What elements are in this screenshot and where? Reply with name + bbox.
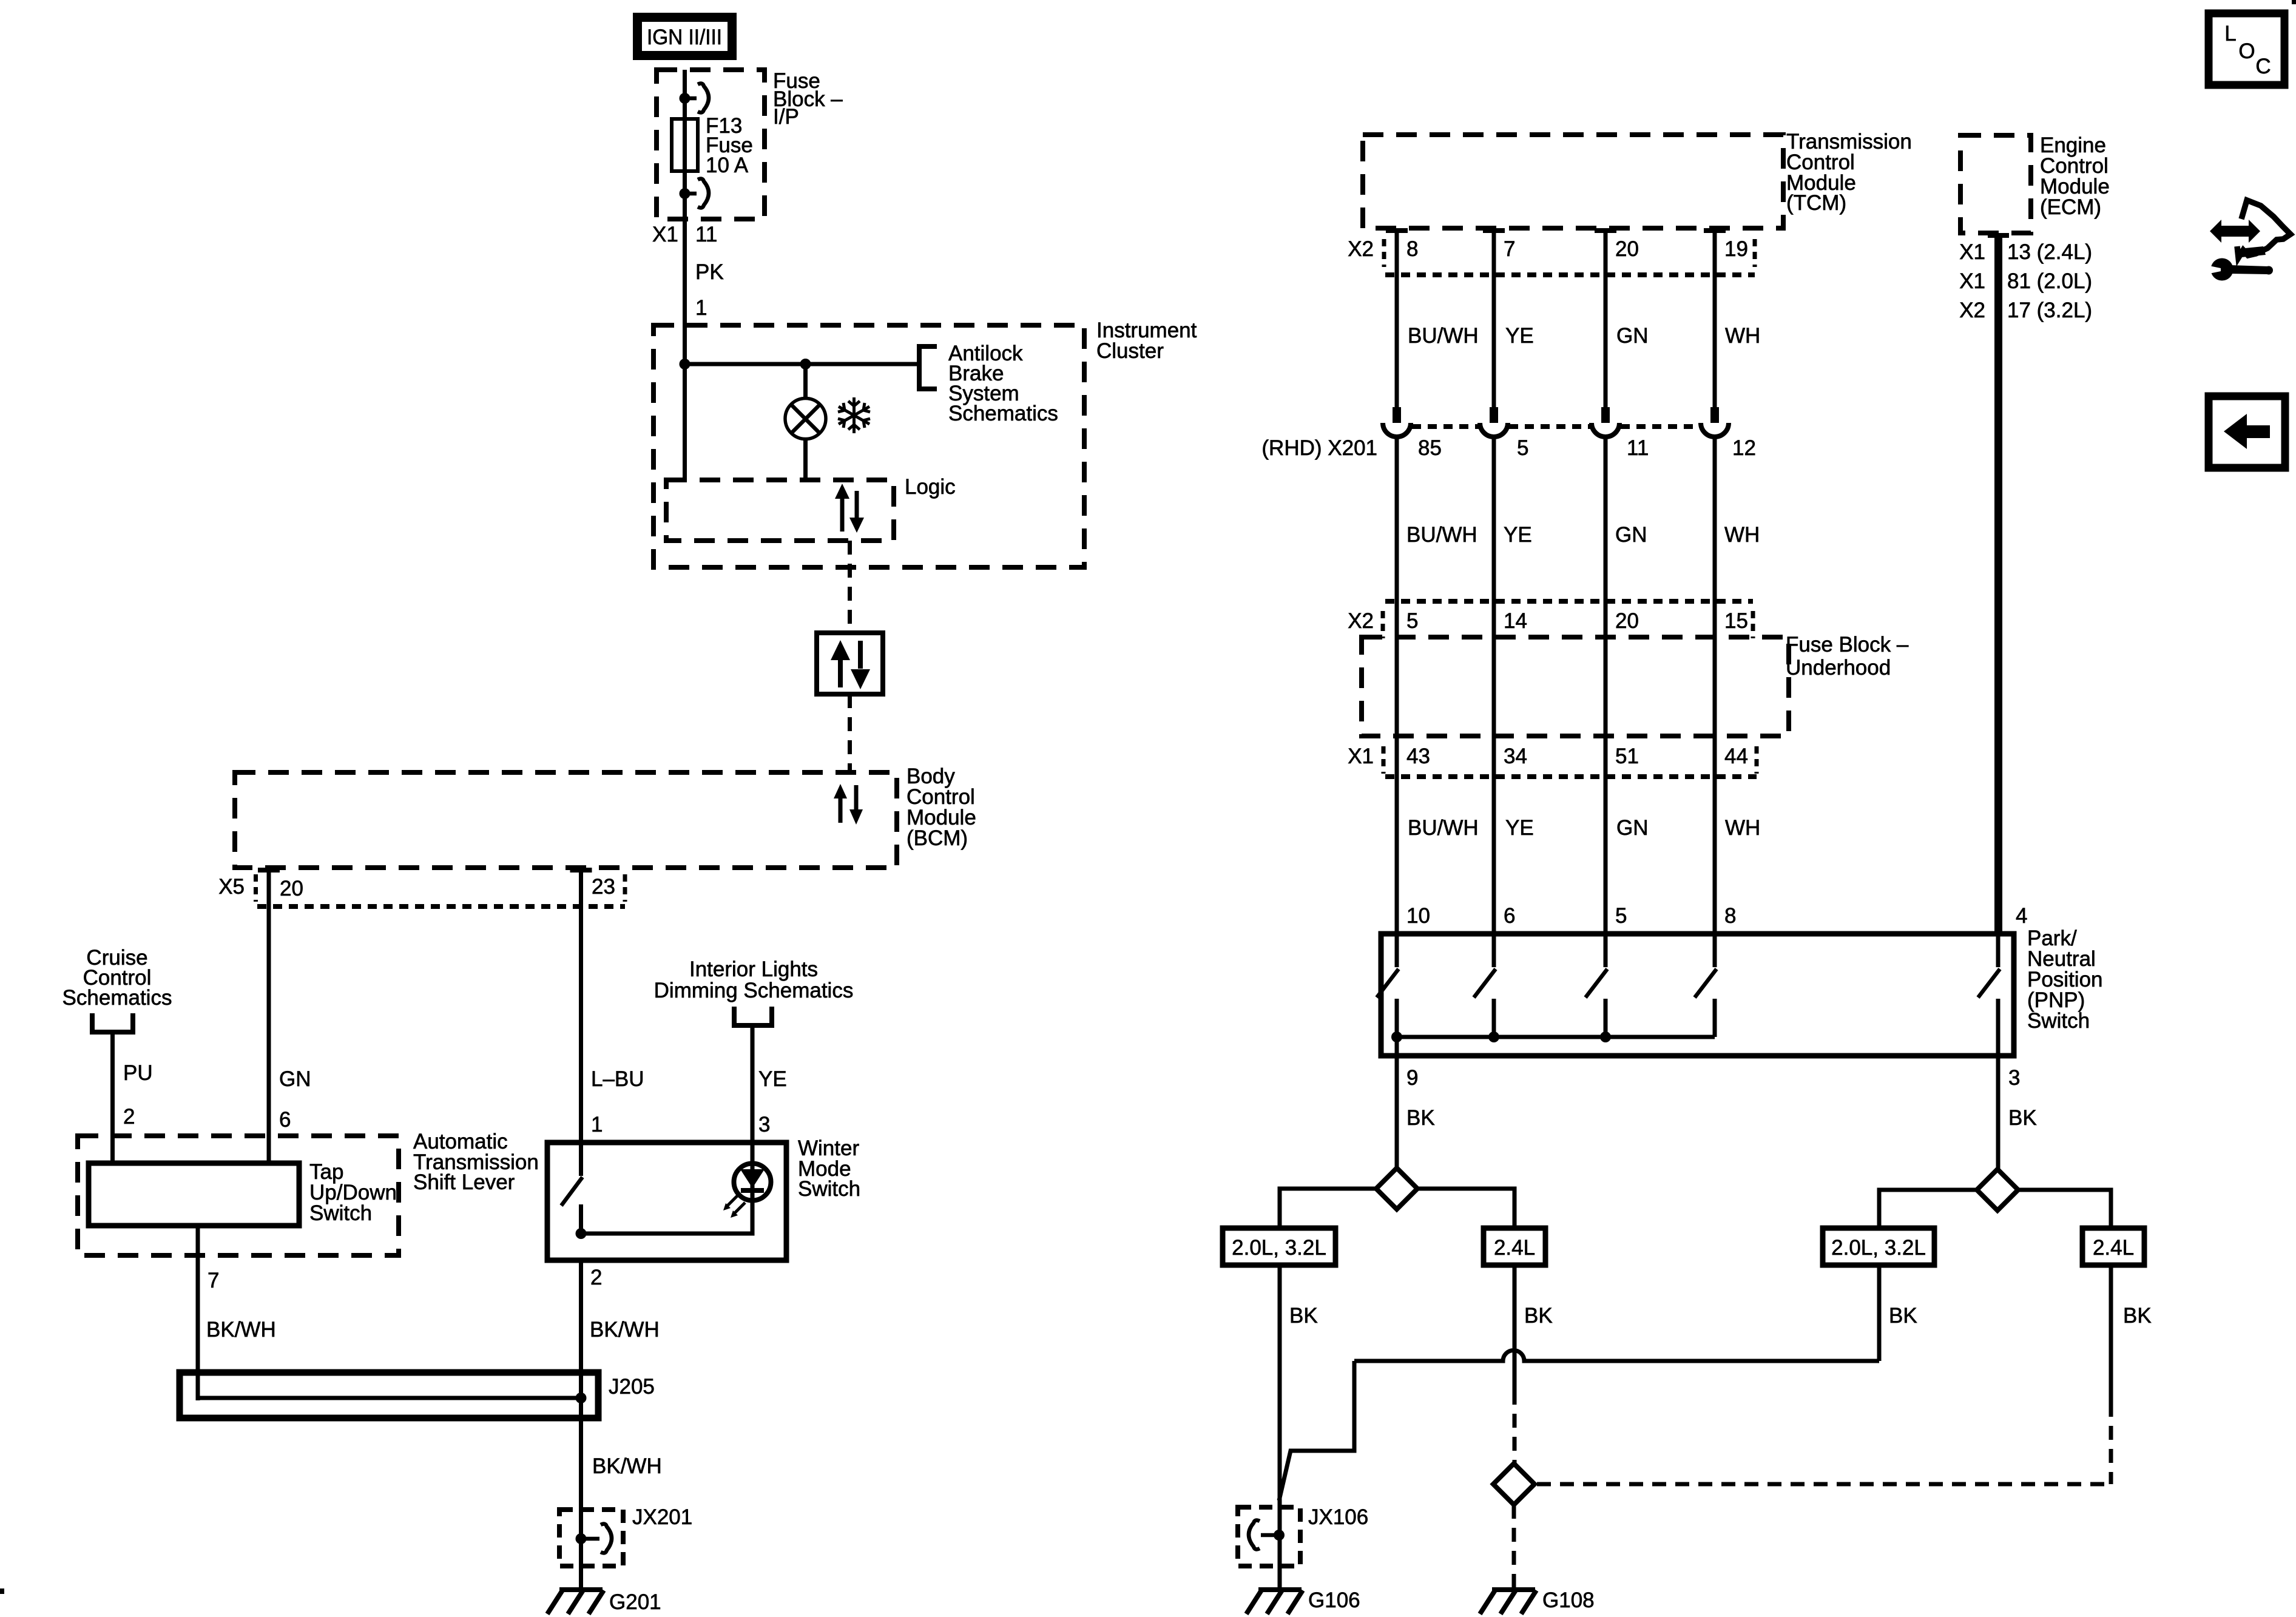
fuse clip bottom (685, 179, 709, 208)
connector X2 row fuse block underhood (1348, 601, 1753, 638)
wire L-BU from BCM pin 23 (579, 868, 583, 1176)
svg-text:5: 5 (1517, 436, 1528, 460)
fuse F13 (672, 119, 698, 171)
engine tag 2.0L 3.2L left (1223, 1228, 1335, 1265)
svg-text:G201: G201 (609, 1590, 661, 1614)
svg-text:51: 51 (1615, 744, 1639, 768)
svg-text:3: 3 (2008, 1066, 2020, 1090)
svg-text:X1: X1 (652, 223, 678, 246)
clip JX201 (581, 1524, 612, 1553)
connector X2 row TCM (1348, 237, 1755, 275)
labels 2 BK/WH (590, 1266, 660, 1342)
svg-text:PK: PK (695, 260, 724, 284)
indicator lamp (785, 399, 826, 439)
label Interior Lights Dimming Schematics (654, 957, 854, 1002)
splice J205 box (180, 1372, 598, 1418)
label Fuse Block - Underhood (1786, 633, 1909, 680)
svg-text:BU/WH: BU/WH (1406, 523, 1477, 547)
bracket to ABS schematics (919, 346, 937, 389)
labels 3 BK (2008, 1066, 2037, 1130)
dashed wire to G108 diamond (1513, 1391, 1517, 1463)
BCM dashed box (235, 772, 897, 868)
svg-text:20: 20 (280, 877, 303, 900)
labels 9 BK (1406, 1066, 1435, 1130)
winter mode switch box (547, 1143, 786, 1260)
diagnostic icon outline (2237, 200, 2291, 258)
pin labels 10 6 5 8 above PNP (1406, 904, 1736, 928)
wire bus inside cluster (685, 362, 917, 366)
dashed branch to right 2.4L (1537, 1482, 2111, 1487)
svg-text:8: 8 (1724, 904, 1736, 928)
junction JX106 dashed box (1238, 1507, 1300, 1566)
dashed wire data link to BCM (848, 694, 852, 772)
engine tag 2.4L right (2082, 1228, 2144, 1265)
wire TCM pin 19 (1704, 228, 1726, 407)
svg-text:43: 43 (1406, 744, 1430, 768)
splice diamond left (1376, 1168, 1417, 1209)
data link up arrow (831, 640, 850, 687)
wire 2.4L left solid (1513, 1265, 1517, 1391)
wire from tap switch pin 7 (196, 1226, 200, 1400)
svg-text:WH: WH (1724, 523, 1760, 547)
svg-text:(TCM): (TCM) (1786, 191, 1846, 215)
logic dashed box (666, 480, 894, 541)
connector X1 row fuse block underhood (1348, 744, 1757, 777)
clip JX106 (1249, 1521, 1279, 1550)
svg-text:3: 3 (758, 1113, 770, 1136)
svg-text:1: 1 (591, 1113, 603, 1136)
switch 4 (1695, 934, 1717, 1037)
inline connector X201 pin 11 (1592, 407, 1619, 437)
wire right 2.0L to bus (1877, 1265, 1882, 1361)
instrument cluster dashed box (653, 325, 1084, 567)
svg-text:WH: WH (1725, 816, 1760, 840)
wire 11 down (1604, 438, 1608, 934)
svg-text:GN: GN (1615, 523, 1647, 547)
svg-text:11: 11 (1627, 436, 1649, 460)
inline connector X201 pin 12 (1701, 407, 1729, 437)
node sw1 (1391, 1031, 1402, 1042)
ground G201 (547, 1590, 604, 1614)
svg-text:X2: X2 (1348, 237, 1374, 261)
svg-text:L–BU: L–BU (591, 1067, 644, 1091)
svg-text:Switch: Switch (2027, 1009, 2090, 1033)
wire lamp bottom (803, 438, 808, 480)
tap up/down switch box (89, 1163, 299, 1226)
wire 5 down (1492, 438, 1496, 934)
pin rows X1 13 (2.4L) X1 81 (2.0L) X2 17 (3.2L) (1959, 240, 2092, 322)
ground G106 (1246, 1590, 1303, 1614)
wire right 2.4L dashed (2109, 1403, 2113, 1484)
diagnostic icon wrench (2206, 258, 2273, 281)
bracket to cruise control schematics (92, 1013, 133, 1032)
wire PK from fuse block to instrument cluster (683, 70, 687, 364)
label Park/Neutral Position (PNP) Switch (2027, 927, 2103, 1033)
back arrow icon box (2209, 396, 2285, 468)
svg-text:10 A: 10 A (706, 154, 749, 177)
svg-text:(BCM): (BCM) (907, 826, 968, 850)
svg-text:YE: YE (1504, 523, 1532, 547)
wire PNP pin 9 (1395, 1037, 1399, 1168)
snowflake symbol (838, 397, 870, 433)
park/neutral position switch box (1381, 934, 2014, 1056)
svg-text:Switch: Switch (309, 1201, 372, 1225)
node sw3 (1600, 1031, 1611, 1042)
label Automatic Transmission Shift Lever (413, 1130, 539, 1194)
wire J205 down (579, 1398, 583, 1590)
wire TCM pin 20 (1595, 228, 1616, 407)
svg-text:(ECM): (ECM) (2040, 195, 2101, 219)
labels BU/WH YE GN WH row3 (1408, 816, 1760, 840)
svg-text:Logic: Logic (905, 475, 956, 499)
fuse block underhood dashed box (1362, 637, 1789, 736)
svg-text:BK: BK (2008, 1106, 2037, 1130)
fuse block I/P dashed box (657, 70, 765, 219)
svg-text:23: 23 (592, 875, 615, 899)
switch lower contact (579, 1204, 583, 1234)
svg-text:Underhood: Underhood (1786, 656, 1891, 680)
svg-text:2.4L: 2.4L (1494, 1236, 1535, 1260)
svg-text:BK: BK (1524, 1304, 1553, 1328)
svg-text:6: 6 (1504, 904, 1515, 928)
engine tag 2.0L 3.2L right (1823, 1228, 1934, 1265)
svg-text:Schematics: Schematics (62, 986, 172, 1010)
connector dashes X201 (1412, 424, 1700, 429)
wire inside J205 (198, 1396, 581, 1400)
svg-text:Fuse Block –: Fuse Block – (1786, 633, 1909, 657)
switch 3 (1585, 934, 1607, 1037)
svg-text:14: 14 (1504, 609, 1527, 633)
svg-text:I/P: I/P (773, 105, 799, 129)
splice diamond right (1977, 1169, 2018, 1210)
svg-text:O: O (2238, 39, 2255, 63)
label PU / 2 (123, 1061, 153, 1129)
svg-text:20: 20 (1615, 609, 1639, 633)
svg-text:5: 5 (1406, 609, 1418, 633)
svg-text:34: 34 (1504, 744, 1527, 768)
svg-text:BK/WH: BK/WH (590, 1318, 660, 1342)
svg-text:BU/WH: BU/WH (1408, 324, 1479, 348)
junction JX201 dashed box (559, 1510, 623, 1566)
wire GN from BCM pin 20 (267, 868, 271, 1163)
svg-text:19: 19 (1724, 237, 1748, 261)
LED light arrows (723, 1195, 745, 1218)
svg-text:G108: G108 (1542, 1588, 1595, 1612)
branch to 2.0L 3.2L left (1280, 1189, 1376, 1228)
svg-text:Dimming Schematics: Dimming Schematics (654, 979, 854, 1002)
labels BU/WH YE GN WH row1 (1408, 324, 1760, 348)
svg-text:GN: GN (279, 1067, 311, 1091)
data link connector box (817, 633, 883, 694)
label Instrument Cluster (1096, 319, 1197, 363)
BCM down arrow (849, 785, 863, 825)
long bus with hop (1354, 1351, 1879, 1362)
wire left drop to logic (683, 364, 687, 480)
svg-text:11: 11 (695, 223, 717, 246)
svg-text:PU: PU (123, 1061, 153, 1085)
svg-text:X5: X5 (218, 875, 245, 899)
labels L-BU 1 YE 3 (591, 1067, 787, 1136)
svg-text:X1: X1 (1959, 269, 1985, 293)
TCM dashed box (1363, 135, 1783, 228)
svg-text:5: 5 (1615, 904, 1627, 928)
dashed wire diamond to G108 (1512, 1505, 1516, 1588)
pin labels 85 5 11 12 (1418, 436, 1756, 460)
automatic transmission shift lever dashed box (78, 1136, 399, 1255)
node sw2 (1488, 1031, 1499, 1042)
inline connector X201 pin 85 (1383, 407, 1411, 437)
node JX106 (1274, 1530, 1285, 1541)
svg-text:C: C (2255, 55, 2271, 78)
svg-text:10: 10 (1406, 904, 1430, 928)
wire TCM pin 7 (1483, 228, 1505, 407)
wire ECM to PNP pin 4 (1988, 233, 2009, 934)
svg-text:7: 7 (208, 1269, 219, 1292)
data link down arrow (851, 641, 870, 689)
label Transmission Control Module (TCM) (1786, 130, 1912, 215)
svg-text:2.4L: 2.4L (2093, 1236, 2134, 1260)
svg-text:9: 9 (1406, 1066, 1418, 1090)
bus left jog to JX106 (1279, 1361, 1354, 1501)
label Engine Control Module (ECM) (2040, 133, 2110, 219)
terminal cap pin 23 (570, 868, 592, 873)
svg-text:20: 20 (1615, 237, 1639, 261)
svg-text:2: 2 (123, 1105, 135, 1129)
svg-text:44: 44 (1724, 744, 1748, 768)
svg-text:G106: G106 (1308, 1588, 1360, 1612)
label Cruise Control Schematics (62, 946, 172, 1010)
diagnostic icon double arrow (2210, 220, 2260, 243)
svg-text:GN: GN (1616, 324, 1649, 348)
connector X5 row (218, 874, 625, 906)
svg-text:17 (3.2L): 17 (3.2L) (2007, 299, 2092, 322)
svg-text:WH: WH (1725, 324, 1760, 348)
diagnostic icon bar (2239, 246, 2266, 257)
svg-text:L: L (2224, 22, 2236, 46)
svg-text:X1: X1 (1959, 240, 1985, 264)
svg-text:1: 1 (695, 296, 707, 320)
pin label X1 11 (652, 223, 717, 246)
svg-text:JX201: JX201 (632, 1505, 692, 1529)
labels BU/WH YE GN WH row2 (1406, 523, 1760, 547)
wire winter mode pin 2 (579, 1260, 583, 1400)
svg-text:YE: YE (758, 1067, 787, 1091)
svg-text:85: 85 (1418, 436, 1442, 460)
label GN / 6 (279, 1067, 311, 1132)
svg-text:(RHD) X201: (RHD) X201 (1261, 436, 1377, 460)
engine tag 2.4L left (1484, 1228, 1545, 1265)
wire 2.0L left to JX106 (1278, 1265, 1282, 1588)
svg-text:12: 12 (1732, 436, 1756, 460)
switch 2 (1474, 934, 1496, 1037)
node winter switch (576, 1228, 587, 1239)
svg-text:7: 7 (1504, 237, 1515, 261)
svg-text:BK: BK (1889, 1304, 1917, 1328)
ECM dashed box (1960, 135, 2031, 233)
terminal cap pin 20 (258, 868, 280, 873)
svg-text:BK/WH: BK/WH (592, 1454, 662, 1478)
branch to 2.0L 3.2L right (1879, 1190, 1977, 1228)
svg-text:2: 2 (590, 1266, 602, 1289)
wire right 2.4L solid (2109, 1265, 2113, 1403)
BCM up arrow (834, 784, 847, 823)
wire to LED (581, 1200, 753, 1234)
splice diamond G108 (1493, 1463, 1535, 1505)
node at PK entry (680, 359, 690, 370)
svg-text:GN: GN (1616, 816, 1649, 840)
svg-text:BK: BK (1289, 1304, 1318, 1328)
svg-text:13 (2.4L): 13 (2.4L) (2007, 240, 2092, 264)
svg-text:YE: YE (1505, 324, 1534, 348)
logic down arrow (849, 491, 864, 533)
wire 85 down (1395, 438, 1399, 934)
label Tap Up/Down Switch (309, 1160, 397, 1225)
label F13 Fuse 10 A (706, 114, 753, 177)
LED indicator (734, 1164, 771, 1201)
bracket to interior lights dimming (734, 1007, 772, 1025)
svg-text:X1: X1 (1348, 744, 1374, 768)
label Antilock Brake System Schematics (948, 342, 1058, 425)
wire YE from dimming bracket (751, 1025, 755, 1201)
svg-text:X2: X2 (1959, 299, 1985, 322)
svg-text:X2: X2 (1348, 609, 1374, 633)
svg-text:Schematics: Schematics (948, 402, 1058, 425)
svg-text:15: 15 (1724, 609, 1748, 633)
svg-text:IGN II/III: IGN II/III (647, 25, 722, 49)
svg-text:Switch: Switch (798, 1177, 860, 1201)
label Body Control Module (BCM) (907, 765, 976, 850)
wire PU from cruise bracket (110, 1031, 115, 1163)
label Fuse Block - I/P (773, 69, 843, 129)
label Winter Mode Switch (798, 1136, 860, 1201)
LOC icon box (2209, 13, 2284, 85)
switch 1 (1377, 934, 1399, 1037)
svg-text:Shift Lever: Shift Lever (413, 1170, 515, 1194)
svg-text:BK: BK (2123, 1304, 2152, 1328)
wire 12 down (1713, 438, 1717, 934)
node JX201 (576, 1533, 587, 1544)
svg-text:8: 8 (1406, 237, 1418, 261)
svg-text:YE: YE (1505, 816, 1534, 840)
wire TCM pin 8 (1386, 228, 1408, 407)
svg-text:BU/WH: BU/WH (1408, 816, 1479, 840)
branch to 2.4L left (1417, 1189, 1514, 1228)
logic up arrow (835, 484, 849, 532)
corner mark top right (2292, 0, 2296, 4)
svg-text:Cluster: Cluster (1096, 339, 1164, 363)
switch 5 (1978, 934, 2000, 1056)
ground G108 (1480, 1590, 1536, 1614)
dashed wire logic to data link (848, 541, 852, 633)
branch to 2.4L right (2018, 1190, 2111, 1228)
svg-text:J205: J205 (609, 1375, 655, 1399)
corner mark bottom left (0, 1588, 4, 1594)
svg-text:BK/WH: BK/WH (206, 1318, 276, 1342)
svg-text:Interior Lights: Interior Lights (689, 957, 818, 981)
junction dot fuse bottom (680, 188, 690, 199)
junction dot fuse top (680, 93, 690, 104)
node J205 (576, 1393, 587, 1403)
bus inside PNP (1397, 1035, 1715, 1039)
inline connector X201 pin 5 (1480, 407, 1508, 437)
switch blade (561, 1177, 582, 1206)
fuse clip top (685, 84, 709, 113)
svg-text:81 (2.0L): 81 (2.0L) (2007, 269, 2092, 293)
wire lamp top (803, 364, 808, 400)
labels BK row (1289, 1304, 2152, 1328)
wire PNP pin 3 (1996, 1056, 2001, 1169)
svg-text:2.0L, 3.2L: 2.0L, 3.2L (1232, 1236, 1326, 1260)
svg-text:JX106: JX106 (1308, 1505, 1368, 1529)
node at lamp branch (800, 359, 811, 370)
svg-text:BK: BK (1406, 1106, 1435, 1130)
power tag IGN II/III (633, 13, 737, 60)
svg-text:6: 6 (279, 1108, 291, 1132)
svg-text:2.0L, 3.2L: 2.0L, 3.2L (1831, 1236, 1926, 1260)
svg-text:4: 4 (2016, 904, 2027, 928)
